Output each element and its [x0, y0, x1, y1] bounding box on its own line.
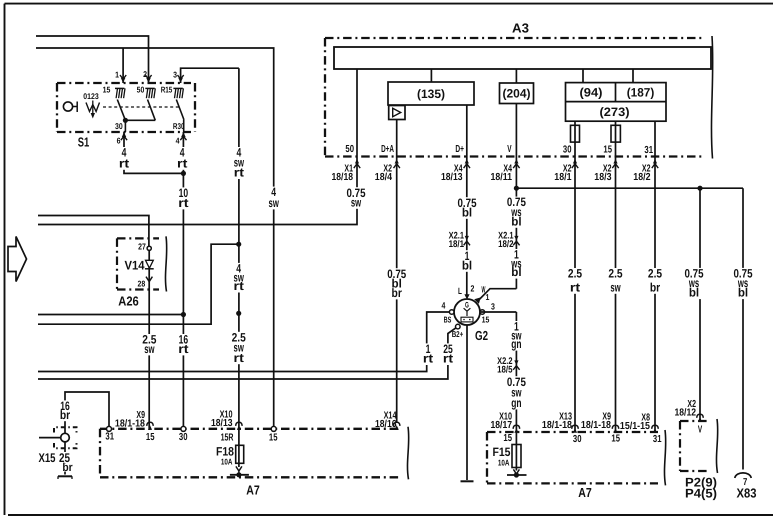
svg-text:15/1-15: 15/1-15 [620, 421, 650, 432]
svg-text:bl: bl [689, 286, 699, 300]
svg-text:A26: A26 [118, 294, 139, 309]
svg-text:rt: rt [234, 166, 244, 180]
svg-text:30: 30 [179, 432, 188, 443]
svg-text:18/11: 18/11 [491, 172, 513, 183]
svg-text:18/1: 18/1 [449, 239, 465, 250]
svg-text:L: L [458, 286, 462, 296]
svg-text:br: br [650, 280, 661, 294]
svg-text:V: V [698, 425, 702, 436]
svg-text:30: 30 [115, 121, 123, 131]
svg-text:rt: rt [570, 280, 580, 294]
svg-text:31: 31 [653, 434, 662, 445]
svg-text:4: 4 [442, 301, 446, 311]
svg-text:18/12: 18/12 [675, 408, 697, 419]
svg-text:18/1-18: 18/1-18 [542, 420, 572, 431]
svg-text:rt: rt [234, 279, 244, 293]
svg-text:0123: 0123 [83, 92, 99, 101]
svg-text:4: 4 [176, 136, 180, 146]
svg-text:27: 27 [138, 242, 146, 252]
svg-text:V: V [507, 144, 511, 155]
svg-text:15: 15 [103, 85, 111, 95]
svg-text:bl: bl [462, 205, 472, 219]
svg-text:18/13: 18/13 [211, 418, 233, 429]
svg-text:sw: sw [144, 342, 155, 356]
svg-text:2: 2 [471, 284, 475, 294]
svg-text:15: 15 [603, 145, 612, 156]
svg-text:15: 15 [269, 433, 278, 444]
svg-text:18/3: 18/3 [594, 172, 611, 183]
svg-text:R30: R30 [173, 121, 185, 131]
svg-text:31: 31 [644, 145, 653, 156]
svg-text:sw: sw [351, 195, 362, 209]
svg-text:28: 28 [138, 279, 146, 289]
svg-text:P4(5): P4(5) [685, 486, 717, 500]
svg-text:(135): (135) [417, 87, 445, 101]
svg-text:18/4: 18/4 [375, 172, 392, 183]
svg-text:bl: bl [511, 214, 521, 228]
svg-text:15: 15 [611, 434, 620, 445]
svg-text:50: 50 [345, 144, 354, 155]
svg-text:(204): (204) [503, 87, 531, 101]
svg-text:10A: 10A [221, 457, 233, 467]
svg-text:D+: D+ [455, 144, 464, 155]
svg-text:18/2: 18/2 [633, 172, 650, 183]
svg-text:B2+: B2+ [452, 329, 464, 339]
svg-text:G: G [465, 301, 469, 310]
svg-text:rt: rt [443, 352, 453, 366]
svg-text:(187): (187) [627, 86, 655, 100]
svg-text:6: 6 [117, 136, 121, 146]
svg-text:2.5: 2.5 [648, 267, 662, 281]
svg-text:rt: rt [178, 342, 188, 356]
svg-text:15R: 15R [221, 433, 234, 444]
svg-text:X15: X15 [39, 451, 56, 465]
svg-text:15: 15 [482, 315, 490, 325]
svg-text:R15: R15 [161, 85, 173, 95]
svg-text:rt: rt [177, 156, 187, 170]
svg-text:30: 30 [563, 145, 572, 156]
svg-text:18/2: 18/2 [498, 239, 513, 250]
svg-text:18/1-18: 18/1-18 [581, 420, 611, 431]
svg-text:rt: rt [234, 351, 244, 365]
svg-text:A7: A7 [578, 485, 592, 500]
svg-text:br: br [60, 408, 71, 422]
svg-text:18/18: 18/18 [332, 172, 354, 183]
svg-text:sw: sw [610, 280, 621, 294]
svg-text:gn: gn [511, 337, 521, 351]
svg-text:BS: BS [444, 315, 452, 325]
svg-text:(273): (273) [600, 105, 630, 119]
svg-text:G2: G2 [475, 328, 488, 343]
svg-text:3: 3 [173, 70, 177, 80]
svg-text:bl: bl [511, 265, 521, 279]
svg-text:1: 1 [115, 70, 119, 80]
svg-text:18/1: 18/1 [554, 172, 571, 183]
svg-text:br: br [62, 462, 73, 474]
svg-text:18/16: 18/16 [375, 419, 397, 430]
svg-text:rt: rt [423, 352, 433, 366]
svg-text:(94): (94) [580, 86, 603, 100]
svg-text:15: 15 [146, 432, 155, 443]
svg-text:rt: rt [178, 196, 188, 210]
svg-text:18/13: 18/13 [441, 172, 463, 183]
svg-text:bl: bl [738, 286, 748, 300]
svg-text:2.5: 2.5 [568, 267, 582, 281]
svg-text:2.5: 2.5 [608, 267, 622, 281]
svg-text:A7: A7 [246, 483, 260, 498]
svg-text:1: 1 [486, 292, 490, 302]
svg-text:10A: 10A [498, 458, 510, 468]
svg-text:3: 3 [491, 302, 495, 312]
svg-text:D+A: D+A [381, 144, 394, 155]
svg-text:18/1-18: 18/1-18 [115, 418, 145, 429]
svg-text:V14: V14 [125, 259, 145, 273]
svg-text:S1: S1 [78, 135, 90, 150]
svg-text:A3: A3 [512, 21, 529, 36]
svg-text:sw: sw [269, 196, 280, 210]
svg-text:30: 30 [573, 434, 582, 445]
svg-text:rt: rt [119, 156, 129, 170]
svg-text:15: 15 [503, 433, 512, 444]
svg-text:31: 31 [105, 432, 114, 443]
svg-text:bl: bl [462, 258, 472, 272]
svg-text:X83: X83 [737, 485, 757, 500]
svg-text:50: 50 [137, 85, 145, 95]
svg-text:br: br [392, 286, 403, 300]
svg-text:18/17: 18/17 [491, 420, 513, 431]
svg-text:gn: gn [511, 396, 521, 410]
